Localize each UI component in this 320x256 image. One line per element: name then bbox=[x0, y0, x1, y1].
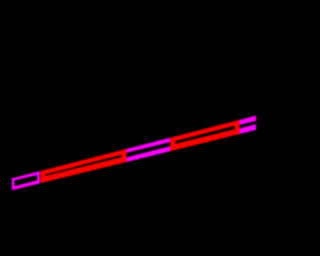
red box 2 bbox=[170, 120, 239, 151]
magenta box 2 (middle) bbox=[124, 137, 173, 163]
red box 1 bbox=[41, 149, 127, 183]
segmented rod rendering on black background bbox=[0, 0, 256, 256]
magenta box 1 (left end) bbox=[12, 171, 40, 190]
magenta box 3 (right, clipped) bbox=[237, 112, 271, 135]
